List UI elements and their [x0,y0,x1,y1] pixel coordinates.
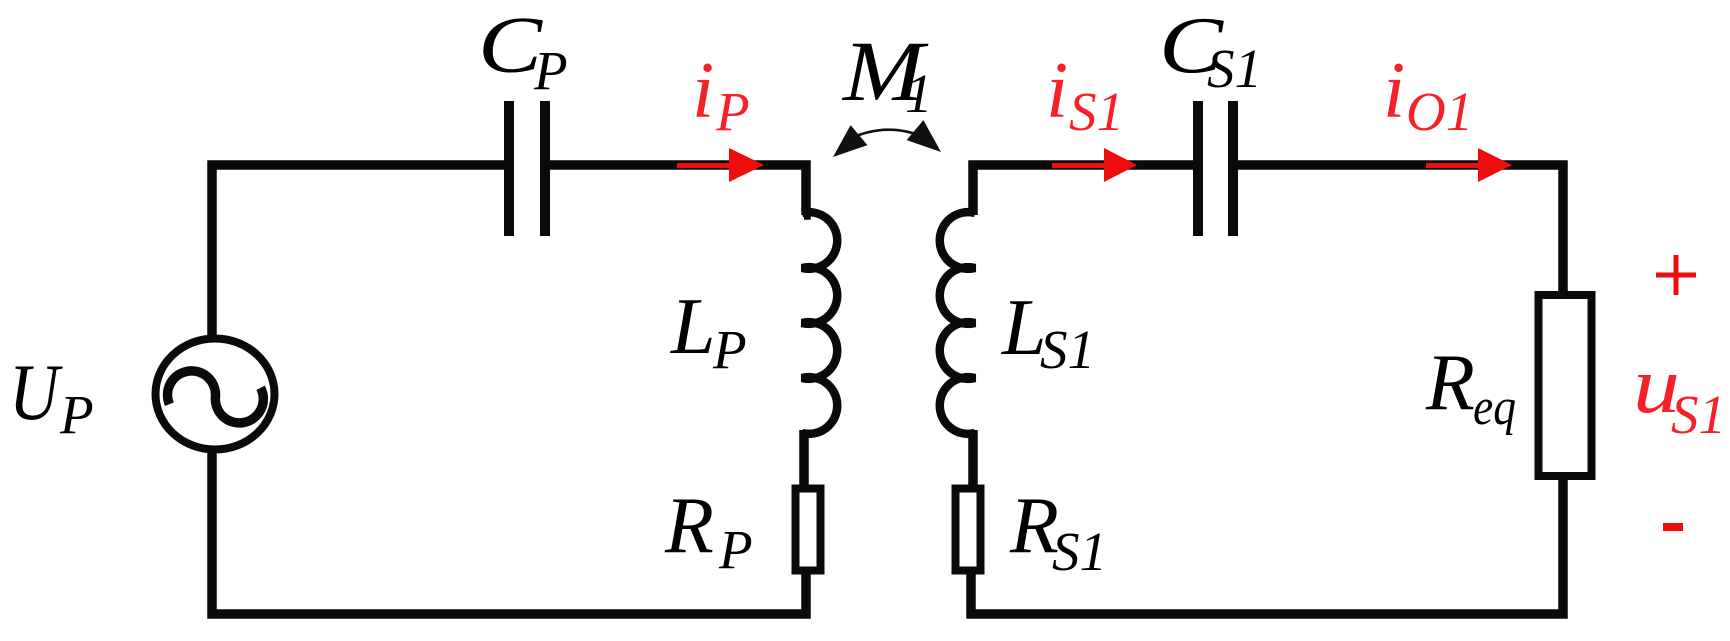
resistor R_S1 [956,489,981,571]
svg-text:i: i [1383,47,1405,135]
svg-text:P: P [718,519,753,580]
inductor L_P [802,212,837,434]
svg-text:i: i [1046,47,1068,135]
svg-text:R: R [1425,339,1475,427]
svg-text:S1: S1 [1069,81,1124,142]
svg-text:S1: S1 [1207,38,1262,99]
mutual coupling arrow M_1 [833,120,941,157]
wire R_S1 to bottom + right loop bottom + up to R_eq [971,476,1563,614]
capacitor C_P [509,101,545,236]
wire C_P right plate to top-left corner of L_P branch [545,165,806,215]
label R_P [664,482,753,580]
resistor R_P [796,489,821,571]
resistor R_eq [1539,295,1592,476]
current arrow i_S1 [1052,148,1137,182]
wire C_S1 right plate to top-right corner down to R_eq [1233,165,1563,295]
svg-text:S1: S1 [1040,319,1095,380]
label C_P [478,2,568,101]
label i_S1 [1046,47,1124,142]
current arrow i_O1 [1426,148,1512,182]
svg-text:P: P [715,81,750,142]
svg-text:1: 1 [905,63,933,124]
label R_eq [1425,339,1516,436]
svg-text:i: i [692,47,714,135]
wire L_S1 to R_S1 stub [968,430,978,488]
svg-text:O1: O1 [1406,81,1473,142]
wire L_S1 top stub + top wire to C_S1 left plate [973,165,1198,215]
label - polarity [1663,523,1683,531]
wire left loop top (source to C_P left plate) [212,165,507,336]
label L_P [670,283,747,380]
label i_O1 [1383,47,1473,142]
AC source U_P [156,339,275,450]
label i_P [692,47,750,142]
label L_S1 [1001,284,1095,380]
svg-text:eq: eq [1473,379,1516,436]
capacitor C_S1 [1198,101,1233,236]
current arrow i_P [677,148,764,182]
label R_S1 [1009,482,1107,582]
svg-text:L: L [670,283,716,371]
label M_1 [841,23,933,124]
svg-text:S1: S1 [1671,384,1726,445]
svg-text:R: R [664,482,714,570]
wire L_P to R_P stub [799,430,809,488]
svg-text:P: P [59,384,94,445]
svg-text:P: P [712,319,747,380]
wire left loop left lower + bottom + stub to R_P [212,450,806,614]
svg-text:U: U [9,349,64,437]
label U_P [9,349,94,445]
label C_S1 [1159,3,1262,100]
inductor L_S1 [940,212,975,434]
label + polarity [1656,255,1696,295]
label u_S1 [1633,342,1726,445]
svg-text:P: P [533,40,568,101]
svg-text:S1: S1 [1052,521,1107,582]
